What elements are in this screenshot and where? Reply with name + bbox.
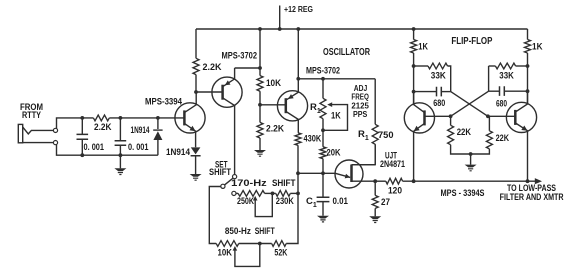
label FILTER AND XMTR [500, 192, 564, 202]
ground Q1 emitter [190, 174, 202, 181]
resistor 33K right [489, 63, 528, 91]
transistor Q3 MPS-3702 [277, 29, 307, 133]
label MPS - 3394S [441, 188, 485, 198]
svg-text:250K: 250K [237, 196, 254, 206]
node 22K ground [469, 152, 473, 156]
svg-text:120: 120 [388, 185, 402, 195]
node diode1 top [156, 116, 160, 120]
potentiometer R1 1K [320, 79, 348, 131]
label TO LOW-PASS [507, 183, 556, 193]
label 850-Hz SHIFT [225, 226, 275, 236]
node osc C1 [321, 171, 325, 175]
node 250K-230K [271, 192, 275, 196]
node osc supply left [296, 77, 300, 81]
svg-text:10K: 10K [218, 248, 233, 259]
label 680 right [496, 98, 507, 108]
wire +12 rail [196, 28, 528, 30]
node emitter Q5 line [526, 179, 530, 183]
svg-text:27: 27 [381, 197, 390, 207]
label 1N914 shunt [131, 125, 150, 135]
label 33K left [431, 71, 446, 82]
label 10K 850 [218, 248, 233, 259]
svg-text:ADJ: ADJ [354, 84, 368, 93]
diode 1N914 emitter [191, 147, 201, 174]
label FROM RTTY [20, 102, 43, 120]
resistor 2.2K input [93, 115, 109, 121]
svg-text:FILTER AND XMTR: FILTER AND XMTR [500, 192, 564, 202]
node 230K right [296, 192, 300, 196]
svg-text:22K: 22K [457, 127, 472, 137]
svg-text:1N914: 1N914 [166, 147, 190, 157]
label R1 pot [310, 102, 321, 115]
svg-text:2N4871: 2N4871 [380, 159, 405, 169]
wire rail to node68 [259, 29, 261, 76]
label 120 [388, 185, 402, 195]
node emitter Q4 line [412, 179, 416, 183]
label FLIP-FLOP [451, 35, 492, 47]
node A 680 [412, 90, 416, 94]
wire cross right to Q4 base [451, 91, 489, 116]
svg-text:+12 REG: +12 REG [284, 5, 313, 14]
svg-text:33K: 33K [499, 71, 514, 82]
transistor Q5 MPS-3394S [506, 91, 536, 181]
node pot top [321, 77, 325, 81]
label 10K bias [266, 78, 281, 88]
label 2.2K bias [266, 123, 284, 133]
switch S1 [209, 175, 236, 244]
wire +12 feed [279, 6, 281, 30]
jack terminal bottom [53, 141, 57, 145]
svg-text:430K: 430K [304, 134, 322, 144]
svg-text:SHIFT: SHIFT [272, 178, 296, 188]
svg-text:20K: 20K [327, 148, 341, 158]
node 10K-52K [258, 242, 262, 246]
wire cross left to Q5 base [451, 92, 488, 117]
svg-text:2125: 2125 [351, 101, 369, 110]
resistor 2.2K bias [257, 122, 263, 138]
wire Q1C to Q2 base [196, 91, 223, 93]
svg-text:2.2K: 2.2K [203, 62, 222, 72]
svg-text:1K: 1K [418, 41, 428, 52]
node A 33K [412, 64, 416, 68]
label 1K pot [331, 110, 341, 121]
label 20K [327, 148, 341, 158]
label R1 750 [358, 129, 369, 142]
resistor 430K [286, 133, 301, 244]
wire signal to Q1 base [109, 117, 184, 119]
svg-text:FREQ: FREQ [351, 93, 369, 102]
resistor 120 [375, 178, 402, 184]
label UJT 2N4871 [380, 150, 405, 168]
label 230K [276, 196, 294, 206]
svg-text:MPS-3702: MPS-3702 [306, 65, 340, 75]
label C1 [306, 196, 317, 209]
node B 33K [526, 64, 530, 68]
ground flip-flop [465, 154, 477, 171]
label 1K left [418, 41, 428, 52]
svg-text:33K: 33K [431, 71, 446, 82]
wire Q4 base [425, 115, 451, 117]
node Q3 base [258, 103, 262, 107]
ground C1 [317, 216, 329, 223]
node rail +12 [278, 27, 282, 31]
svg-text:SHIFT: SHIFT [255, 226, 275, 236]
potentiometer 250K [236, 191, 276, 217]
node osc left [296, 171, 300, 175]
svg-text:MPS - 3394S: MPS - 3394S [441, 188, 485, 198]
svg-text:850-Hz: 850-Hz [225, 226, 251, 236]
svg-text:0.01: 0.01 [333, 196, 349, 206]
svg-text:0. 001: 0. 001 [84, 142, 105, 152]
svg-text:MPS-3394: MPS-3394 [145, 97, 182, 107]
output arrow [535, 178, 542, 184]
resistor 22K left [448, 116, 490, 154]
node pot bottom [321, 128, 325, 132]
svg-text:PPS: PPS [353, 110, 368, 119]
svg-text:2.2K: 2.2K [94, 122, 112, 132]
label 680 left [433, 98, 445, 108]
label 170-Hz SHIFT [231, 178, 296, 188]
svg-text:230K: 230K [276, 196, 294, 206]
label 0.001 first [84, 142, 105, 152]
label MPS-3702 second [306, 65, 340, 75]
svg-text:750: 750 [378, 130, 394, 140]
resistor 2.2K collector [193, 29, 199, 92]
phone jack J1 [18, 124, 53, 142]
wire osc node [298, 172, 335, 174]
svg-text:RTTY: RTTY [22, 110, 41, 120]
svg-text:0. 001: 0. 001 [128, 142, 149, 152]
node cap1 bottom [80, 153, 84, 157]
label 430K [304, 134, 322, 144]
label 2.2K input [94, 122, 112, 132]
label OSCILLATOR [323, 46, 370, 58]
svg-text:1K: 1K [331, 110, 341, 121]
label MPS-3394 [145, 97, 182, 107]
label 33K right [499, 71, 514, 82]
wire 2.2K to gnd [259, 138, 261, 150]
wire Q5 base [488, 115, 515, 117]
diode 1N914 shunt [153, 118, 162, 155]
svg-text:170-Hz: 170-Hz [231, 178, 267, 188]
resistor 1K right [525, 29, 531, 104]
wire base Q3 [260, 104, 286, 106]
ground bias divider [254, 150, 266, 157]
svg-text:680: 680 [433, 98, 445, 108]
svg-text:2.2K: 2.2K [266, 123, 284, 133]
jack terminal top [53, 128, 57, 132]
node rail 260 [258, 27, 262, 31]
resistor 10K bias [257, 76, 263, 92]
resistor 20K [320, 147, 326, 174]
wire input top [57, 118, 94, 129]
capacitor 680 right [489, 86, 528, 96]
node B 680 [526, 89, 530, 93]
resistor 1K left [411, 29, 417, 105]
wire input bottom [57, 145, 158, 155]
node rail 298 [296, 27, 300, 31]
label 750 [378, 130, 394, 140]
node rail 1K left [412, 27, 416, 31]
terminal 170Hz [232, 191, 236, 195]
node cap2 top [119, 116, 123, 120]
ground input [114, 155, 126, 175]
resistor 33K left [414, 63, 451, 92]
wire output line [403, 180, 536, 182]
transistor Q4 MPS-3394S [404, 92, 434, 182]
capacitor 0.001 (second) [115, 118, 127, 155]
label 27 [381, 197, 390, 207]
resistor 27 [372, 181, 378, 216]
resistor 52K [272, 241, 287, 247]
resistor R1 750 [352, 79, 379, 165]
capacitor 680 left [414, 87, 451, 97]
capacitor 0.001 (first) [77, 118, 89, 155]
wire 10K to 2.2K [259, 91, 261, 122]
label 52K [274, 248, 287, 259]
label 22K right [496, 133, 510, 143]
label 1K right [532, 41, 543, 52]
label 1N914 emitter [166, 147, 190, 157]
capacitor C1 0.01 [317, 173, 330, 215]
label SET SHIFT [209, 159, 231, 177]
label +12 REG [284, 5, 313, 14]
svg-text:1K: 1K [532, 41, 543, 52]
node cap2 bottom [119, 153, 123, 157]
transistor Q1 MPS-3394 [175, 92, 205, 147]
svg-text:10K: 10K [266, 78, 281, 88]
svg-text:FLIP-FLOP: FLIP-FLOP [451, 35, 492, 47]
svg-text:680: 680 [496, 98, 507, 108]
label 0.01 [333, 196, 349, 206]
transistor Q2 MPS-3702 [212, 68, 242, 174]
label ADJ FREQ 2125 PPS [351, 84, 369, 119]
node Q5 base [486, 114, 490, 118]
wire pot to 20K [322, 130, 324, 147]
label 2.2K collector [203, 62, 222, 72]
wire Q2 emitter to rail node [235, 67, 260, 69]
label 22K left [457, 127, 472, 137]
label 0.001 second [128, 142, 149, 152]
transistor UJT 2N4871 [335, 144, 375, 188]
svg-text:MPS-3702: MPS-3702 [222, 51, 258, 61]
ground 27 [369, 216, 381, 223]
node Q2 emitter [258, 66, 262, 70]
label MPS-3702 first [222, 51, 258, 61]
svg-text:SHIFT: SHIFT [209, 167, 231, 177]
label 250K [237, 196, 254, 206]
svg-text:22K: 22K [496, 133, 510, 143]
node cap1 top [80, 116, 84, 120]
node Q1 collector [194, 90, 198, 94]
node UJT B1 [373, 179, 377, 183]
potentiometer 10K 850 [216, 241, 272, 267]
node Q4 base [449, 114, 453, 118]
wire osc supply [298, 78, 375, 80]
svg-text:52K: 52K [274, 248, 287, 259]
resistor 230K [276, 191, 298, 197]
svg-text:1N914: 1N914 [131, 125, 150, 135]
svg-text:OSCILLATOR: OSCILLATOR [323, 46, 370, 58]
resistor 22K right [486, 116, 492, 149]
